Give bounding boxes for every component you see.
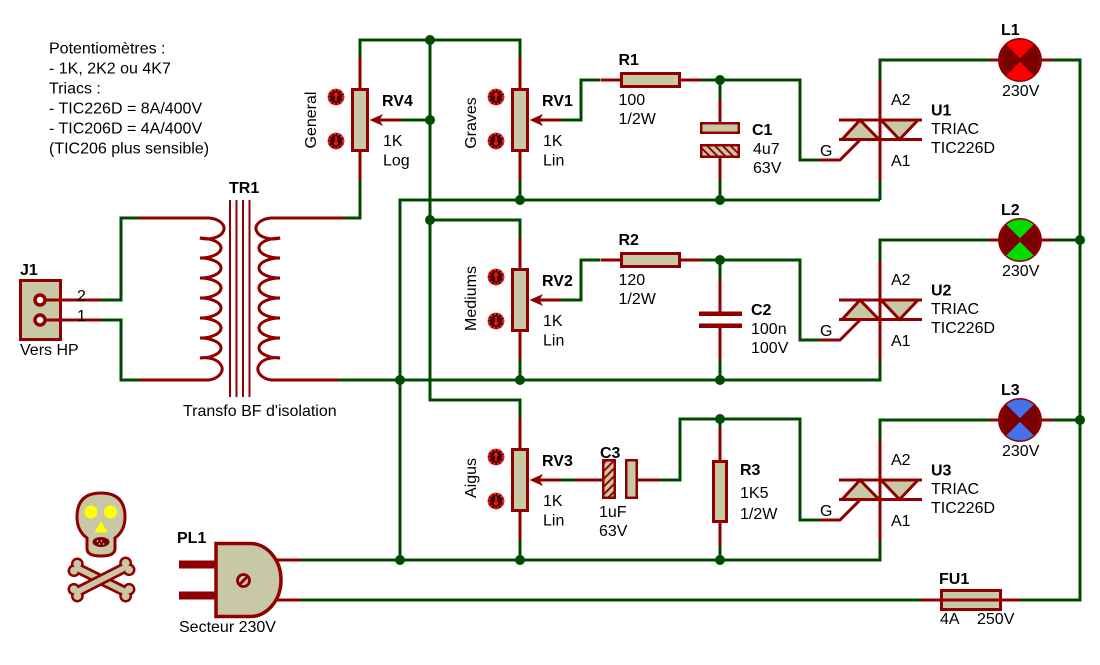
wire (519, 540, 522, 560)
svg-text:RV4: RV4 (382, 93, 413, 110)
RV1 adjust buttons (488, 89, 505, 106)
capacitor C1 (719, 100, 722, 122)
svg-text:TR1: TR1 (229, 180, 259, 197)
capacitor C3 (575, 479, 602, 482)
triac U2 (879, 261, 882, 361)
svg-text:Aigus: Aigus (463, 458, 480, 498)
resistor R1 (601, 79, 621, 82)
svg-text:- TIC206D = 4A/400V: - TIC206D = 4A/400V (49, 121, 202, 138)
wire (561, 260, 600, 300)
connector J1 (21, 281, 61, 340)
triac U3 (879, 441, 882, 541)
wire (719, 260, 722, 279)
potentiometer RV3 (519, 418, 522, 449)
wire (719, 419, 722, 428)
wire (561, 80, 600, 120)
svg-text:- 1K, 2K2 ou 4K7: - 1K, 2K2 ou 4K7 (49, 61, 171, 78)
junction (395, 375, 405, 385)
svg-text:RV2: RV2 (542, 273, 573, 290)
svg-text:TIC226D: TIC226D (931, 320, 995, 337)
svg-text:63V: 63V (599, 523, 628, 540)
svg-text:R2: R2 (619, 232, 640, 249)
svg-text:J1: J1 (20, 262, 38, 279)
svg-text:U3: U3 (931, 463, 952, 480)
svg-text:1K: 1K (543, 133, 563, 150)
svg-text:A1: A1 (891, 333, 911, 350)
svg-text:100: 100 (619, 92, 646, 109)
svg-text:Lin: Lin (543, 513, 564, 530)
svg-text:4A: 4A (940, 611, 960, 628)
wire (430, 220, 520, 238)
wire (400, 200, 880, 560)
junction (515, 375, 525, 385)
svg-text:Log: Log (383, 153, 410, 170)
svg-text:1/2W: 1/2W (619, 291, 657, 308)
wire (719, 360, 722, 380)
svg-text:Graves: Graves (463, 97, 480, 149)
RV3 adjust buttons (488, 449, 505, 466)
svg-text:A1: A1 (891, 513, 911, 530)
wire (344, 180, 360, 218)
junction (715, 75, 725, 85)
wire (879, 181, 882, 200)
svg-text:1/2W: 1/2W (619, 111, 657, 128)
transformer TR1 (139, 217, 209, 220)
svg-text:L1: L1 (1001, 22, 1020, 39)
junction (425, 115, 435, 125)
svg-text:A2: A2 (891, 92, 911, 109)
svg-text:63V: 63V (753, 160, 782, 177)
potentiometer RV4 (359, 58, 362, 89)
wire (519, 180, 522, 200)
wire (880, 420, 989, 441)
wire (880, 240, 989, 261)
svg-text:G: G (820, 503, 832, 520)
wire (719, 180, 722, 200)
junction (715, 375, 725, 385)
svg-text:4u7: 4u7 (753, 141, 780, 158)
svg-text:C2: C2 (751, 302, 772, 319)
svg-text:G: G (820, 143, 832, 160)
svg-text:230V: 230V (1002, 83, 1040, 100)
junction (515, 555, 525, 565)
svg-text:A2: A2 (891, 452, 911, 469)
svg-text:U1: U1 (931, 103, 952, 120)
junction (425, 35, 435, 45)
fuse FU1 (920, 599, 940, 602)
wire (360, 40, 520, 58)
wire (880, 60, 989, 81)
svg-text:R1: R1 (619, 52, 640, 69)
svg-text:TRIAC: TRIAC (931, 481, 979, 498)
svg-text:U2: U2 (931, 283, 952, 300)
svg-text:1/2W: 1/2W (740, 506, 778, 523)
junction (1075, 415, 1085, 425)
svg-text:1K: 1K (543, 493, 563, 510)
junction (715, 414, 725, 424)
svg-text:1: 1 (77, 308, 86, 325)
svg-text:230V: 230V (1002, 263, 1040, 280)
svg-text:Transfo BF d'isolation: Transfo BF d'isolation (183, 403, 337, 420)
junction (715, 255, 725, 265)
wire (301, 540, 880, 560)
resistor R2 (601, 259, 621, 262)
wire (301, 599, 920, 602)
junction (515, 195, 525, 205)
junction (715, 195, 725, 205)
resistor R3 (719, 428, 722, 460)
svg-text:Triacs :: Triacs : (49, 81, 101, 98)
wire (720, 260, 820, 340)
U2 gate wire (820, 320, 861, 341)
wire (1052, 239, 1080, 242)
svg-text:1K: 1K (543, 313, 563, 330)
svg-text:250V: 250V (977, 611, 1015, 628)
RV4 adjust buttons (328, 89, 345, 106)
svg-text:Secteur 230V: Secteur 230V (179, 619, 276, 636)
svg-text:G: G (820, 323, 832, 340)
svg-text:C1: C1 (752, 122, 773, 139)
svg-text:L2: L2 (1001, 202, 1020, 219)
svg-text:TIC226D: TIC226D (931, 140, 995, 157)
wire (561, 479, 576, 482)
svg-text:Mediums: Mediums (463, 266, 480, 331)
wire (1052, 419, 1080, 422)
wire (339, 360, 880, 380)
svg-text:100V: 100V (751, 340, 789, 357)
svg-text:TRIAC: TRIAC (931, 121, 979, 138)
danger skull icon (65, 493, 137, 605)
wire (719, 546, 722, 560)
potentiometer RV1 (519, 58, 522, 89)
junction (1075, 235, 1085, 245)
capacitor C2 (719, 279, 722, 312)
wire (660, 419, 820, 520)
mains plug PL1 (272, 559, 301, 562)
svg-text:230V: 230V (1002, 443, 1040, 460)
wire (700, 79, 720, 82)
svg-text:A2: A2 (891, 272, 911, 289)
svg-text:2: 2 (77, 288, 86, 305)
wire (1020, 60, 1080, 600)
svg-text:120: 120 (619, 272, 646, 289)
svg-text:RV1: RV1 (542, 93, 573, 110)
svg-text:1K: 1K (383, 133, 403, 150)
svg-text:A1: A1 (891, 153, 911, 170)
RV2 adjust buttons (488, 269, 505, 286)
junction (425, 215, 435, 225)
wire (719, 80, 722, 100)
svg-text:100n: 100n (751, 321, 787, 338)
svg-text:Lin: Lin (543, 153, 564, 170)
wire (101, 218, 139, 300)
wire (720, 80, 820, 160)
lamp L3 (989, 419, 1001, 422)
wire (102, 320, 139, 380)
lamp L2 (989, 239, 1001, 242)
lamp L1 (989, 59, 1001, 62)
svg-text:RV3: RV3 (542, 453, 573, 470)
wire (430, 40, 520, 418)
svg-text:FU1: FU1 (939, 571, 969, 588)
svg-text:General: General (303, 92, 320, 149)
svg-text:1uF: 1uF (599, 504, 627, 521)
triac U1 (879, 81, 882, 181)
junction (715, 555, 725, 565)
svg-text:L3: L3 (1001, 382, 1020, 399)
svg-text:C3: C3 (600, 445, 621, 462)
U3 gate wire (820, 500, 861, 521)
svg-text:Vers HP: Vers HP (20, 342, 79, 359)
svg-text:TRIAC: TRIAC (931, 301, 979, 318)
svg-text:1K5: 1K5 (740, 485, 769, 502)
svg-text:- TIC226D = 8A/400V: - TIC226D = 8A/400V (49, 101, 202, 118)
U1 gate wire (820, 140, 861, 161)
potentiometer RV2 (519, 238, 522, 269)
svg-text:Potentiomètres :: Potentiomètres : (49, 41, 166, 58)
svg-text:R3: R3 (740, 462, 761, 479)
svg-text:PL1: PL1 (177, 530, 206, 547)
svg-text:TIC226D: TIC226D (931, 500, 995, 517)
svg-text:(TIC206 plus sensible): (TIC206 plus sensible) (49, 141, 209, 158)
wire (519, 360, 522, 380)
wire (400, 119, 430, 122)
wire (700, 259, 720, 262)
junction (395, 555, 405, 565)
svg-text:Lin: Lin (543, 333, 564, 350)
